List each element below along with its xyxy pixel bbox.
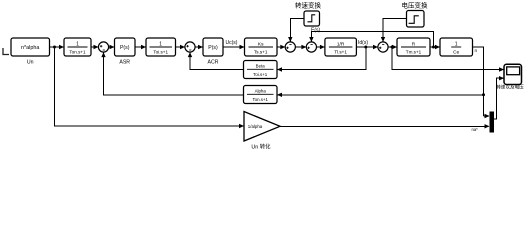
wire sum3 to sum4 bbox=[295, 46, 306, 48]
wire Id branch after sum5 down then right to scope input 1 bbox=[392, 47, 504, 70]
step source A speed change bbox=[304, 11, 320, 26]
junction node n to alpha feedback bbox=[482, 93, 485, 96]
summing junction sum4 bbox=[306, 42, 316, 52]
arrowhead into sum1 bbox=[94, 45, 99, 49]
svg-text:1/alpha: 1/alpha bbox=[248, 124, 263, 129]
arrowhead into ACR bbox=[198, 45, 203, 49]
svg-text:Alpha: Alpha bbox=[255, 89, 267, 94]
wire ASR to Toi filter bbox=[135, 46, 146, 48]
block current regulator ACR P(s) bbox=[203, 38, 223, 56]
wire current feedback branch from Id node down and left to beta block bbox=[278, 47, 366, 70]
arrowhead into scope input 1 bbox=[499, 67, 504, 71]
svg-text:Tm.s+1: Tm.s+1 bbox=[406, 50, 422, 55]
wire sum5 to R/Tm block bbox=[388, 46, 397, 48]
svg-text:Ts.s+1: Ts.s+1 bbox=[254, 50, 268, 55]
svg-text:ASR: ASR bbox=[119, 60, 130, 66]
svg-text:Beta: Beta bbox=[256, 64, 266, 69]
junction node Id to beta feedback bbox=[364, 46, 367, 49]
wire R/Tm block to 1/Ce block (node E) bbox=[430, 46, 440, 48]
svg-text:Tl.s+1: Tl.s+1 bbox=[334, 50, 347, 55]
svg-text:Un: Un bbox=[27, 60, 34, 66]
wire sum1 to ASR bbox=[109, 46, 115, 48]
junction node after sum5 to scope bbox=[391, 46, 394, 49]
svg-text:na*: na* bbox=[472, 127, 479, 132]
wire sum4 to armature block bbox=[316, 46, 324, 48]
arrowhead into mux input 2 bbox=[485, 124, 490, 128]
block feedback alpha/(Ton.s+1) bbox=[244, 86, 278, 104]
arrowhead into R/Tm block bbox=[392, 45, 397, 49]
wire step source A (speed change) down into sum3 bbox=[290, 19, 304, 43]
svg-text:n*alpha: n*alpha bbox=[21, 45, 39, 51]
block converter Ks/(Ts.s+1) bbox=[245, 38, 278, 56]
arrowhead down into sum5 top bbox=[381, 37, 385, 42]
arrowhead down into sum4 top bbox=[309, 37, 313, 42]
arrowhead up into sum1 bottom bbox=[101, 52, 105, 57]
arrowhead up into sum2 bottom bbox=[188, 52, 192, 57]
arrowhead into scope input 2 bbox=[499, 76, 504, 80]
svg-text:P(s): P(s) bbox=[120, 45, 130, 51]
mux block bbox=[490, 112, 495, 133]
step source B voltage change bbox=[407, 11, 425, 28]
svg-text:Ton.s+1: Ton.s+1 bbox=[252, 97, 268, 102]
wire Un branch down to bottom and right to gain triangle bbox=[55, 47, 244, 126]
svg-text:Id(s): Id(s) bbox=[358, 40, 368, 46]
svg-text:ACR: ACR bbox=[208, 60, 219, 66]
wire mux output right then up into scope input 2 bbox=[494, 78, 504, 119]
wire alpha block output to sum1 bottom bbox=[104, 53, 244, 95]
block speed filter 1/(Ton.s+1) bbox=[64, 38, 91, 56]
arrowhead into alpha block right edge bbox=[277, 93, 282, 97]
svg-text:Ton.s+1: Ton.s+1 bbox=[69, 50, 86, 55]
block speed regulator ASR P(s) bbox=[115, 38, 136, 56]
summing junction sum2 bbox=[185, 42, 195, 52]
gain triangle 1/alpha bbox=[244, 112, 280, 142]
arrowhead into Toi filter bbox=[141, 45, 146, 49]
wire ACR to Ks block (node Uc) bbox=[223, 46, 244, 48]
arrowhead down into sum3 top bbox=[288, 37, 292, 42]
block Un reference (n*alpha) bbox=[11, 38, 50, 56]
svg-text:转速变换: 转速变换 bbox=[295, 1, 322, 10]
scope block bbox=[504, 64, 522, 84]
wire Toi filter to sum2 bbox=[176, 46, 185, 48]
arrowhead into sum2 bbox=[180, 45, 185, 49]
svg-text:n: n bbox=[475, 49, 478, 54]
wire n branch into mux input 1 bbox=[484, 115, 490, 117]
svg-text:Ce: Ce bbox=[453, 50, 459, 56]
arrowhead into 1/Ce block bbox=[435, 45, 440, 49]
summing junction sum1 bbox=[98, 42, 108, 52]
svg-text:电压变换: 电压变换 bbox=[402, 1, 429, 10]
wire back-emf E feedback from node after R/Tm up left and down into sum4 bbox=[311, 31, 433, 47]
cropped corner fragment at left edge bbox=[3, 48, 9, 55]
svg-text:E(s): E(s) bbox=[311, 28, 321, 34]
wire speed feedback from n node to alpha block bbox=[278, 94, 484, 96]
block armature circuit 1/R/(Tl.s+1) bbox=[325, 38, 357, 56]
arrowhead into sum5 bbox=[373, 45, 378, 49]
svg-text:P(s): P(s) bbox=[208, 45, 218, 51]
arrowhead into armature block bbox=[320, 45, 325, 49]
arrowhead into ASR bbox=[110, 45, 115, 49]
summing junction sum5 bbox=[378, 42, 388, 52]
arrowhead into gain triangle bbox=[239, 124, 244, 128]
svg-text:Uc(s): Uc(s) bbox=[226, 40, 238, 46]
junction node E feedback bbox=[432, 46, 435, 49]
block feedback beta/(Toi.s+1) bbox=[244, 61, 278, 79]
junction node after Un block bbox=[53, 46, 56, 49]
wire gain triangle output to mux input 2 bbox=[280, 125, 489, 127]
svg-text:Toi.s+1: Toi.s+1 bbox=[253, 72, 268, 77]
svg-text:Un 转化: Un 转化 bbox=[251, 143, 271, 151]
wire armature block to sum5 (node Id) bbox=[356, 46, 377, 48]
wire 1/Ce output n going right then down bbox=[473, 47, 484, 116]
arrowhead into sum3 bbox=[280, 45, 285, 49]
wire block Un to Ton filter bbox=[50, 46, 64, 48]
arrowhead into Ks block bbox=[240, 45, 245, 49]
wire step source B (voltage change) down into sum5 bbox=[383, 19, 407, 42]
block 1/Ce bbox=[440, 38, 473, 56]
arrowhead into sum4 bbox=[301, 45, 306, 49]
summing junction sum3 bbox=[285, 42, 295, 52]
svg-text:转速以及电压: 转速以及电压 bbox=[496, 84, 524, 91]
wire beta block output to sum2 bottom bbox=[190, 53, 244, 70]
block current filter 1/(Toi.s+1) bbox=[146, 38, 176, 56]
wire Ks block to sum3 bbox=[277, 46, 285, 48]
arrowhead into mux input 1 bbox=[485, 114, 490, 118]
svg-text:Toi.s+1: Toi.s+1 bbox=[153, 50, 168, 55]
arrowhead into beta block right edge bbox=[277, 67, 282, 71]
block mechanical R/(Tm.s+1) bbox=[397, 38, 430, 56]
wire Ton filter to sum1 bbox=[91, 46, 98, 48]
arrowhead into Ton filter bbox=[59, 45, 64, 49]
wire sum2 to ACR bbox=[195, 46, 203, 48]
